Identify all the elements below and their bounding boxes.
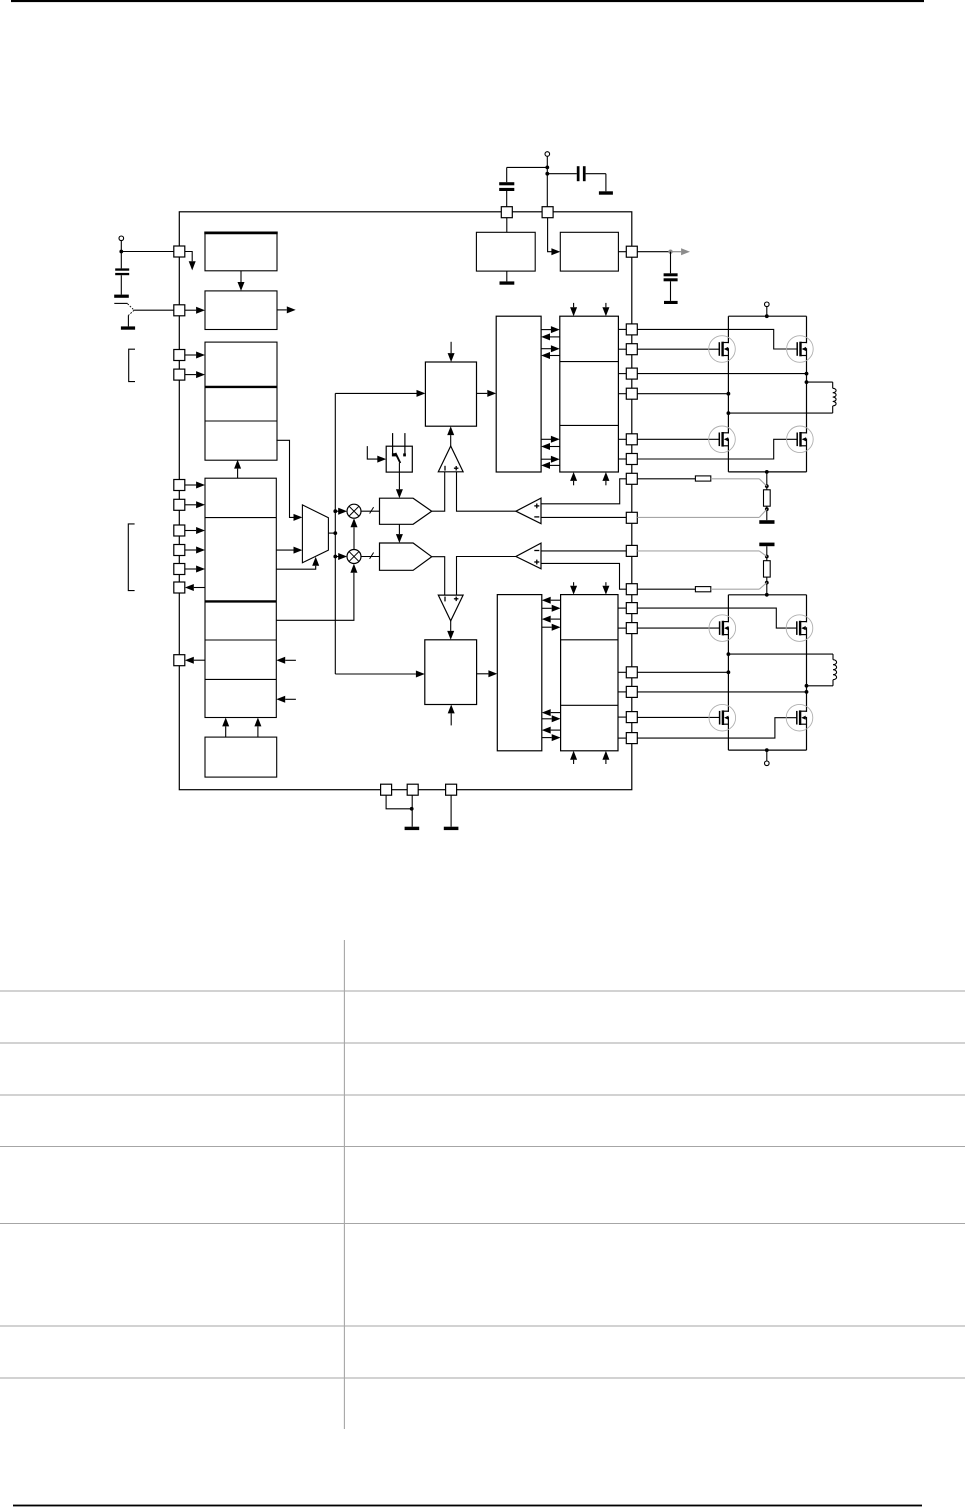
wire gate pin to Q5 <box>637 627 719 629</box>
arrow one-shot 1 to one-shot 2 <box>396 524 403 543</box>
multiplier M1 <box>347 504 361 518</box>
transistor Q2 <box>787 336 814 363</box>
arrowhead into mux input 1 <box>294 514 303 521</box>
wire T1 to ground <box>506 271 508 281</box>
arrow block E to block D right <box>254 718 261 738</box>
wire bus to PWM1 <box>335 392 416 394</box>
wire gate pin to Q3 <box>637 438 719 440</box>
ground under T1 <box>500 281 515 284</box>
stub arrows into BRG1 bottom <box>570 472 609 485</box>
wire bridge1 to R1 <box>766 472 768 490</box>
node bus-M2 <box>333 555 337 559</box>
wire comparator C minus input <box>541 516 626 518</box>
arrow pair LS1-BRG1 d <box>541 456 560 469</box>
resistor R1 sense <box>764 490 771 506</box>
SW2 contact stub 1 <box>392 433 396 456</box>
multiplier M2 <box>347 550 361 564</box>
terminal VSA top <box>545 152 550 157</box>
ground GND3 <box>444 827 459 830</box>
comparator C left <box>516 498 541 524</box>
node CP b <box>545 172 549 176</box>
gray wire pin to R3 top <box>637 551 767 557</box>
node L2 top <box>727 652 731 656</box>
inductor L1 motor winding <box>728 382 836 413</box>
node L2 bottom <box>805 684 809 688</box>
wire R3 to bridge2 <box>766 577 768 595</box>
PWM1 box <box>425 362 476 426</box>
capacitor C4 vreg <box>664 252 678 301</box>
arrow PWM1 to level shifter 1 <box>477 390 497 397</box>
stub arrows into BRG1 top <box>570 303 609 316</box>
block B oscillator <box>205 291 277 330</box>
wire pin VREG out <box>637 251 670 253</box>
block A thermal <box>204 232 277 271</box>
node bridge1 supply <box>765 314 769 318</box>
block D logic <box>205 478 276 717</box>
ground under C1 <box>114 295 129 298</box>
SW2 contact stub 2 <box>403 433 406 456</box>
block E position decoder <box>205 737 277 777</box>
wire SW1 to pin EN <box>134 309 174 311</box>
wire block D to mux input 2 <box>276 549 293 551</box>
node bridge2 supply <box>765 748 769 752</box>
wire C1 to ground <box>120 275 122 294</box>
wire gate pin to Q6 <box>637 608 797 628</box>
one-shot 2 <box>380 543 432 570</box>
IC boundary <box>179 212 632 790</box>
ground under R1 <box>759 520 774 524</box>
stub arrow into PWM2 bottom <box>448 705 455 726</box>
right edge pin squares <box>626 246 637 743</box>
wire comparator C plus input <box>541 479 626 504</box>
arrow bus to multiplier M1 <box>335 508 347 515</box>
SW2 lever <box>395 453 400 463</box>
bridge1 rails <box>728 316 806 472</box>
block T1 regulator <box>476 232 535 271</box>
arrow block D to pin 11 <box>185 657 205 664</box>
bridge logic 2 box <box>561 595 618 751</box>
stub arrows into BRG2 bottom <box>570 751 609 764</box>
wire block D to mux bottom <box>276 566 315 570</box>
wires BRG1 to pins <box>618 329 626 459</box>
node VREG gray <box>668 250 672 254</box>
ground under C4 <box>664 301 678 304</box>
bracket pin group 1 <box>129 349 135 381</box>
left edge pin squares <box>174 246 185 666</box>
arrow pin 8 into block D <box>185 547 205 554</box>
block T2 regulator <box>560 232 618 271</box>
arrowhead into mux bottom <box>312 557 319 566</box>
PWM2 box <box>425 640 477 705</box>
level shifter 2 box <box>497 595 542 751</box>
node L1 top <box>805 380 809 384</box>
page top rule <box>11 0 924 2</box>
ground GND2 <box>405 827 420 830</box>
wire comparator D plus input <box>541 563 626 589</box>
node L1 bottom <box>727 411 731 415</box>
wire pin OUT2 to bridge1 left <box>637 393 728 395</box>
wire gate pin to Q1 <box>637 348 719 350</box>
capacitor C2 boot <box>499 167 547 206</box>
arrow pin 3 into block C <box>185 352 205 359</box>
node GND junction <box>410 807 414 811</box>
resistor R2 series <box>695 476 710 481</box>
node bridge1 sense <box>765 470 769 474</box>
arrow pair LS2-BRG2 a <box>542 597 561 612</box>
stub arrow into block D right 1 <box>276 657 296 664</box>
node OUT4 <box>805 690 809 694</box>
switch SW1 <box>114 303 134 326</box>
bracket pin group 2 <box>128 524 134 591</box>
wire bridge2 supply terminal <box>766 750 768 761</box>
arrow pin 5 into block D <box>185 482 205 489</box>
terminal bridge1 supply <box>765 302 770 307</box>
wire R1 to ground <box>766 506 768 520</box>
stub arrow into block D right 2 <box>276 696 296 703</box>
wire one-shot 2 to comparator B minus <box>432 557 445 595</box>
arrow pin 7 into block D <box>185 527 205 534</box>
node bridge2 top <box>765 593 769 597</box>
wire comparator C out to comparator A plus <box>457 472 516 511</box>
one-shot 1 <box>380 498 432 524</box>
arrow comparator B to PWM2 top <box>447 621 454 640</box>
arrow block B output <box>277 306 296 313</box>
wire one-shot 1 to comparator A minus <box>432 472 445 511</box>
arrow stub at pin VS <box>185 252 196 271</box>
ground over R3 <box>759 543 774 547</box>
wire T2 to pin VREG <box>618 251 626 253</box>
table column divider <box>343 940 345 1429</box>
terminal VS <box>119 236 124 241</box>
wire gate pin to Q8 <box>637 718 797 738</box>
wire comparator D minus input <box>541 550 626 552</box>
wire M1 to one-shot 1 <box>361 507 380 513</box>
arrow pair LS2-BRG2 c <box>542 709 561 722</box>
arrow bus to multiplier M2 <box>335 553 347 560</box>
node R1 bottom <box>765 507 769 511</box>
wire VS top rail to pin VS <box>121 241 174 269</box>
wire ground to R3 <box>766 546 768 561</box>
inductor L2 motor winding <box>728 654 836 686</box>
transistor Q6 <box>786 615 813 642</box>
wire pin to resistor R4 <box>637 588 695 590</box>
arrow block A to block B <box>238 271 245 291</box>
node bus-M1 <box>333 509 337 513</box>
bus vertical wire <box>334 393 336 674</box>
transistor Q5 <box>709 615 736 642</box>
wire gate pin to Q7 <box>637 716 719 718</box>
gray arrow VREG out <box>672 248 690 255</box>
wire pin CP1 to block T1 <box>506 218 508 233</box>
arrow pin 4 into block C <box>185 371 205 378</box>
arrow pair LS1-BRG1 b <box>541 345 560 359</box>
arrow pair LS1-BRG1 a <box>541 326 560 340</box>
bridge2 rails <box>728 595 806 750</box>
wire pin to resistor R2 <box>637 478 695 480</box>
node R3 top <box>765 555 769 559</box>
arrow pair LS2-BRG2 b <box>542 616 561 631</box>
node bus-mux <box>333 531 337 535</box>
arrow pin 9 into block D <box>185 566 205 573</box>
wire pin OUT4 to bridge2 right <box>637 691 806 693</box>
gray wire pin to R1 bottom <box>637 509 767 517</box>
arrow block D to pin 10 <box>185 584 205 591</box>
arrowhead into mux input 2 <box>294 547 303 554</box>
arrow pair LS2-BRG2 d <box>542 727 561 742</box>
page bottom rule <box>13 1505 922 1507</box>
wire pin GND3 <box>450 795 452 827</box>
comparator B down <box>438 595 463 621</box>
wire pin OUT1 to bridge1 right <box>637 373 806 375</box>
stub arrow into PWM1 top <box>448 342 455 362</box>
comparator D left <box>516 543 541 569</box>
transistor Q1 <box>709 336 736 363</box>
top edge pin squares <box>501 207 553 218</box>
node R1 top <box>765 484 769 488</box>
resistor R4 series <box>695 587 710 592</box>
arrow comparator A to PWM1 bottom <box>447 426 454 446</box>
capacitor C1 <box>115 268 129 275</box>
node OUT2 <box>727 392 731 396</box>
arrowhead into M2 bottom <box>350 564 357 573</box>
arrowhead into PWM2 left <box>416 671 425 678</box>
ground under SW1 <box>121 326 135 329</box>
comparator A up <box>438 446 463 472</box>
arrow pin 6 into block D <box>185 501 205 508</box>
transistor Q8 <box>786 704 813 731</box>
SW2 input stub left <box>367 446 386 463</box>
arrow M2 to M1 <box>351 518 358 549</box>
arrow SW2 common to one-shot 1 <box>396 463 403 498</box>
wire pin OUT3 to bridge2 left <box>637 671 728 673</box>
wire pin GND2 <box>411 795 413 827</box>
mux U2 <box>302 505 328 563</box>
wire comparator D out to comparator B plus <box>457 557 516 596</box>
arrow block E to block D left <box>222 718 229 738</box>
node OUT3 <box>727 670 731 674</box>
wire pin GND1 <box>386 795 412 809</box>
wire block C to mux select <box>276 440 293 517</box>
level shifter 1 box <box>496 316 541 472</box>
selector box SW2 <box>386 446 412 472</box>
arrow pair LS1-BRG1 c <box>541 436 560 450</box>
node R3 bottom <box>765 581 769 585</box>
stub arrows into BRG2 top <box>570 582 609 594</box>
arrow block D to block C <box>234 460 241 478</box>
wires BRG2 to pins <box>618 608 626 738</box>
wire mux output to bus <box>328 532 335 534</box>
capacitor C3 vs filter <box>547 166 606 191</box>
node OUT1 <box>805 372 809 376</box>
table row rules <box>0 991 965 1378</box>
wire gate pin to Q4 <box>637 439 797 459</box>
bottom edge pin squares <box>381 784 457 795</box>
transistor Q4 <box>787 426 814 453</box>
wire bus to PWM2 <box>335 673 416 675</box>
transistor Q7 <box>709 704 736 731</box>
wire gate pin to Q2 <box>637 329 797 349</box>
block C interface <box>205 342 277 460</box>
resistor R3 sense <box>764 561 771 577</box>
gray wire R2 to R1 top <box>711 479 767 486</box>
terminal bridge2 supply <box>765 761 770 766</box>
wire VSA to pin <box>546 156 548 206</box>
arrow PWM2 to level shifter 2 <box>477 670 498 677</box>
transistor Q3 <box>709 426 736 453</box>
arrow pin CP2 into block T2 <box>548 218 561 256</box>
bridge logic 1 box <box>560 316 619 472</box>
wire M2 to one-shot 2 <box>361 553 380 559</box>
wire supply to bridge1 rail <box>766 307 768 317</box>
ground under C3 <box>599 191 613 194</box>
wire block D to M2 bottom <box>276 573 354 621</box>
node VS junction <box>119 250 123 254</box>
node CP a <box>545 166 549 170</box>
arrowhead into PWM1 left <box>417 390 426 397</box>
arrow pin EN into block B <box>185 307 205 314</box>
gray wire R4 to R3 bottom <box>711 583 767 590</box>
